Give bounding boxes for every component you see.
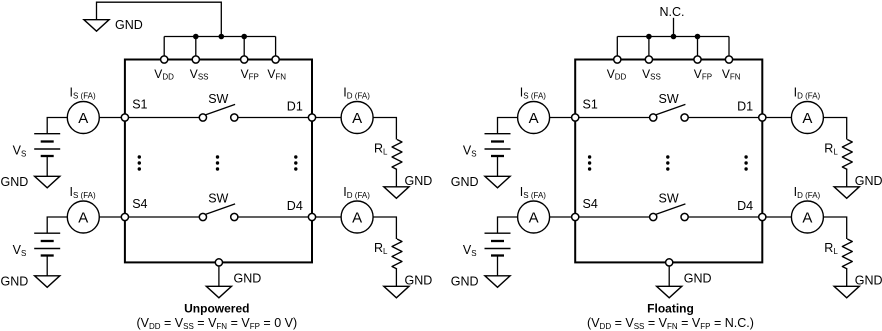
svg-text:N.C.: N.C. (660, 5, 685, 19)
pin GND bottom left (215, 259, 222, 266)
svg-text:SW: SW (208, 92, 228, 106)
svg-text:RL: RL (374, 141, 388, 156)
wire ammeter to S pin right row1 (550, 117, 576, 119)
wire bus right (617, 36, 729, 38)
IC body box left (125, 60, 312, 263)
wire switch to D4 left (234, 216, 312, 218)
ground bottom right (657, 286, 682, 298)
battery VS left row1 (34, 133, 60, 135)
resistor RL right row2 (842, 239, 852, 269)
svg-text:RL: RL (824, 141, 838, 156)
pin VFP right (694, 56, 701, 63)
pin VFN left (272, 56, 279, 63)
wire ammeter to resistor left row2 (373, 217, 396, 239)
resistor RL left row2 (392, 239, 402, 269)
ground load right row1 (834, 187, 859, 199)
ellipsis dots right column left (294, 155, 297, 158)
svg-text:GND: GND (234, 272, 262, 286)
wire pin stub right (616, 37, 618, 60)
svg-text:A: A (529, 110, 539, 127)
svg-text:A: A (529, 209, 539, 226)
wire pin stub left (163, 37, 165, 60)
wire pin stub right (697, 37, 699, 60)
ground load right row2 (834, 286, 859, 298)
svg-text:ID (FA): ID (FA) (343, 86, 370, 101)
junction dot left (193, 34, 199, 40)
svg-text:SW: SW (208, 192, 228, 206)
ammeter ID left row1 (341, 102, 373, 134)
pin D4 right (759, 213, 766, 220)
ground bottom left (206, 286, 231, 298)
pin VFP left (241, 56, 248, 63)
wire ammeter to battery left row2 (47, 217, 67, 233)
pin VSS right (645, 56, 652, 63)
wire pin stub right (648, 37, 650, 60)
resistor RL right row1 (842, 140, 852, 170)
svg-text:S4: S4 (132, 197, 147, 211)
junction dot left (241, 34, 247, 40)
svg-text:VS: VS (13, 243, 27, 258)
ellipsis dots center column left (216, 155, 219, 158)
svg-text:A: A (78, 209, 88, 226)
svg-text:VFP: VFP (694, 67, 712, 82)
pin VSS left (192, 56, 199, 63)
wire S4 to switch left (125, 216, 203, 218)
pin VDD left (161, 56, 168, 63)
wire ammeter to resistor left row1 (373, 118, 396, 140)
wire ammeter to S pin left row1 (99, 117, 125, 119)
ammeter ID left row2 (341, 201, 373, 233)
wire ammeter to battery right row2 (498, 217, 518, 233)
svg-text:A: A (352, 209, 362, 226)
wire battery to ground right row1 (497, 156, 499, 176)
svg-text:D1: D1 (737, 99, 753, 113)
pin GND bottom right (666, 259, 673, 266)
wire ammeter to resistor right row1 (823, 118, 846, 140)
wire battery to ground left row2 (46, 256, 48, 276)
wire ammeter to resistor right row2 (823, 217, 846, 239)
svg-text:VDD: VDD (607, 67, 627, 82)
resistor RL left row1 (392, 140, 402, 170)
switch SW left row2 (206, 204, 235, 214)
wire pin stub left (195, 37, 197, 60)
wire top to ground left (97, 2, 222, 36)
wire bottom pin to ground left (218, 262, 220, 286)
pin S1 right (572, 114, 579, 121)
wire ammeter to battery left row1 (47, 118, 67, 134)
svg-text:VSS: VSS (190, 67, 209, 82)
ground source left row1 (35, 176, 60, 188)
svg-text:GND: GND (1, 274, 29, 288)
wire battery to ground right row2 (497, 256, 499, 276)
svg-text:VSS: VSS (642, 67, 661, 82)
svg-text:S1: S1 (583, 98, 598, 112)
svg-text:VS: VS (463, 243, 477, 258)
wire battery to ground left row1 (46, 156, 48, 176)
wire D1 to ammeter left (312, 117, 341, 119)
junction dot left (219, 34, 225, 40)
svg-text:D4: D4 (287, 199, 303, 213)
ground load left row1 (384, 187, 409, 199)
wire resistor to ground right row2 (846, 269, 848, 286)
svg-text:S4: S4 (583, 197, 598, 211)
wire ammeter to battery right row1 (498, 118, 518, 134)
svg-text:GND: GND (684, 272, 712, 286)
ellipsis dots left column right (588, 155, 591, 158)
wire switch to D1 left (234, 117, 312, 119)
svg-text:ID (FA): ID (FA) (794, 185, 821, 200)
ground top-left left (84, 20, 109, 32)
wire pin stub left (243, 37, 245, 60)
pin D1 left (308, 114, 315, 121)
svg-text:VS: VS (13, 144, 27, 159)
svg-text:GND: GND (855, 174, 882, 188)
ellipsis dots center column right (666, 155, 669, 158)
svg-text:(VDD = VSS = VFN = VFP = N.C.): (VDD = VSS = VFN = VFP = N.C.) (587, 316, 754, 331)
wire S1 to switch left (125, 117, 203, 119)
ground source right row1 (485, 176, 510, 188)
svg-text:Floating: Floating (647, 302, 694, 316)
svg-text:D4: D4 (737, 199, 753, 213)
wire switch to D1 right (685, 117, 763, 119)
svg-text:IS (FA): IS (FA) (520, 185, 546, 200)
junction dot right (695, 34, 701, 40)
ground source right row2 (485, 276, 510, 288)
battery VS left row2 (34, 232, 60, 234)
wire resistor to ground left row1 (395, 170, 397, 187)
svg-text:RL: RL (374, 241, 388, 256)
svg-text:SW: SW (659, 92, 679, 106)
wire pin stub left (275, 37, 277, 60)
wire bottom pin to ground right (668, 262, 670, 286)
wire S4 to switch right (575, 216, 653, 218)
svg-text:ID (FA): ID (FA) (794, 86, 821, 101)
svg-text:IS (FA): IS (FA) (520, 86, 546, 101)
wire D4 to ammeter left (312, 216, 341, 218)
wire D4 to ammeter right (762, 216, 791, 218)
pin S1 left (121, 114, 128, 121)
battery VS right row2 (485, 232, 511, 234)
svg-text:VFN: VFN (267, 67, 286, 82)
wire S1 to switch right (575, 117, 653, 119)
pin D4 left (308, 213, 315, 220)
svg-text:A: A (802, 209, 812, 226)
svg-text:A: A (802, 110, 812, 127)
svg-text:VDD: VDD (154, 67, 174, 82)
svg-text:(VDD = VSS = VFN = VFP = 0 V): (VDD = VSS = VFN = VFP = 0 V) (136, 316, 297, 331)
wire ammeter to S pin left row2 (99, 216, 125, 218)
svg-text:VFN: VFN (722, 67, 741, 82)
ammeter ID right row2 (791, 201, 823, 233)
svg-text:GND: GND (405, 174, 433, 188)
ammeter IS right row2 (518, 201, 550, 233)
ground source left row2 (35, 276, 60, 288)
ellipsis dots right column right (744, 155, 747, 158)
wire switch to D4 right (685, 216, 763, 218)
svg-text:IS (FA): IS (FA) (70, 86, 96, 101)
svg-text:VFP: VFP (241, 67, 259, 82)
svg-text:RL: RL (824, 241, 838, 256)
switch SW left row1 (206, 104, 235, 114)
ammeter IS left row2 (67, 201, 99, 233)
svg-text:GND: GND (1, 175, 29, 189)
wire ammeter to S pin right row2 (550, 216, 576, 218)
wire bus left (164, 36, 275, 38)
pin S4 right (572, 213, 579, 220)
svg-text:VS: VS (463, 144, 477, 159)
svg-text:SW: SW (659, 192, 679, 206)
ammeter IS right row1 (518, 102, 550, 134)
svg-text:GND: GND (451, 274, 479, 288)
pin VDD right (614, 56, 621, 63)
svg-text:ID (FA): ID (FA) (343, 185, 370, 200)
svg-text:Unpowered: Unpowered (184, 302, 249, 316)
IC body box right (575, 60, 762, 263)
pin VFN right (725, 56, 732, 63)
switch SW right row2 (656, 204, 685, 214)
svg-text:GND: GND (115, 18, 143, 32)
wire resistor to ground right row1 (846, 170, 848, 187)
svg-text:D1: D1 (287, 99, 303, 113)
svg-text:A: A (78, 110, 88, 127)
ammeter ID right row1 (791, 102, 823, 134)
ellipsis dots left column left (138, 155, 141, 158)
pin D1 right (759, 114, 766, 121)
ammeter IS left row1 (67, 102, 99, 134)
wire D1 to ammeter right (762, 117, 791, 119)
switch SW right row1 (656, 104, 685, 114)
wire pin stub right (728, 37, 730, 60)
pin S4 left (121, 213, 128, 220)
svg-text:GND: GND (405, 274, 433, 288)
svg-text:S1: S1 (132, 98, 147, 112)
svg-text:GND: GND (855, 274, 882, 288)
junction dot right (646, 34, 652, 40)
ground load left row2 (384, 286, 409, 298)
svg-text:A: A (352, 110, 362, 127)
battery VS right row1 (485, 133, 511, 135)
wire N.C. stub right (673, 18, 675, 37)
wire resistor to ground left row2 (395, 269, 397, 286)
junction dot right (671, 34, 677, 40)
svg-text:GND: GND (451, 175, 479, 189)
svg-text:IS (FA): IS (FA) (70, 185, 96, 200)
